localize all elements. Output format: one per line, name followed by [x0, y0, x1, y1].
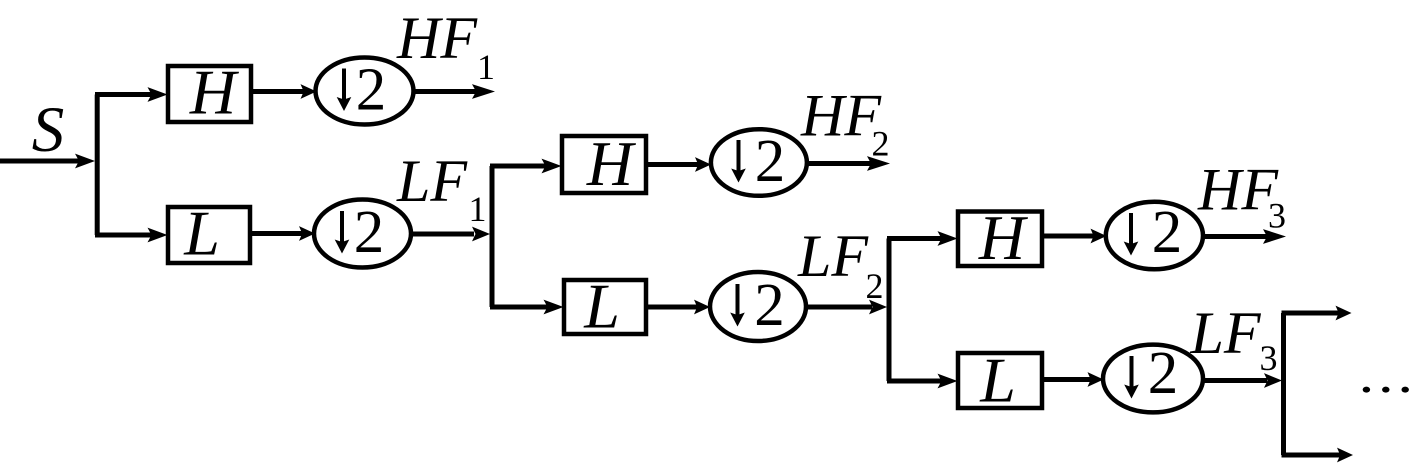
- svg-text:2: 2: [1152, 199, 1183, 266]
- svg-text:3: 3: [1268, 196, 1286, 236]
- wire downsampler 1 to HF1 output: [413, 84, 495, 99]
- wire downsampler 4 to split 3 (LF2): [806, 300, 888, 315]
- downsampler 4 (down-arrow 2 ellipse): [710, 272, 806, 341]
- filter box L2: [564, 271, 646, 342]
- wire H3 to downsampler 5: [1042, 229, 1107, 244]
- node S label: [32, 94, 65, 166]
- wire downsampler 2 to split 2 (LF1): [411, 227, 491, 242]
- wire branch 3 to L3: [887, 374, 958, 389]
- wire split 3 vertical: [887, 239, 892, 382]
- downsampler 2 (down-arrow 2 ellipse): [314, 199, 411, 268]
- wire branch 1 to H1: [95, 87, 168, 102]
- downsampler 5 (down-arrow 2 ellipse): [1106, 199, 1203, 269]
- svg-text:2: 2: [754, 272, 785, 339]
- node HF1 label: [396, 5, 495, 87]
- node HF2 label: [800, 83, 890, 164]
- downsampler 6 (down-arrow 2 ellipse): [1103, 340, 1203, 413]
- svg-text:2: 2: [872, 124, 890, 164]
- downsampler 3 (down-arrow 2 ellipse): [711, 128, 807, 196]
- node LF3 label: [1190, 300, 1278, 378]
- node LF2 label: [797, 223, 884, 306]
- downsampler 1 (down-arrow 2 ellipse): [316, 57, 414, 125]
- svg-text:3: 3: [1260, 338, 1278, 378]
- svg-text:2: 2: [356, 57, 387, 124]
- wire branch 2 to H2: [490, 159, 562, 174]
- wire L2 to downsampler 4: [646, 300, 710, 315]
- node HF3 label: [1197, 157, 1286, 236]
- wire downsampler 3 to HF2 output: [807, 156, 891, 171]
- svg-text:S: S: [32, 94, 65, 166]
- svg-text:2: 2: [354, 199, 385, 266]
- ellipsis continuation dots: [1363, 387, 1409, 393]
- wire split 4 vertical: [1281, 313, 1286, 455]
- wire split 2 vertical: [490, 166, 495, 307]
- wire H2 to downsampler 3: [646, 157, 711, 172]
- wire input S: [0, 154, 95, 169]
- svg-text:2: 2: [755, 128, 786, 195]
- wire split 1 vertical: [95, 95, 100, 236]
- wire branch 2 to L2: [490, 300, 564, 315]
- svg-text:L: L: [183, 198, 220, 269]
- filter box H3: [958, 202, 1042, 273]
- filter box H2: [562, 128, 646, 199]
- svg-text:1: 1: [477, 47, 495, 87]
- svg-text:LF: LF: [797, 223, 869, 289]
- wire downsampler 6 to split 4 (LF3): [1202, 373, 1282, 388]
- wire branch 4 bottom output: [1282, 448, 1354, 463]
- svg-text:L: L: [979, 345, 1016, 416]
- svg-text:LF: LF: [396, 148, 468, 214]
- svg-text:2: 2: [1148, 340, 1179, 407]
- filter box H1: [168, 57, 251, 128]
- wire downsampler 5 to HF3 output: [1203, 229, 1286, 244]
- wire L3 to downsampler 6: [1042, 372, 1104, 387]
- svg-text:H: H: [189, 57, 240, 128]
- wire branch 1 to L1: [95, 228, 168, 243]
- svg-text:HF: HF: [1197, 157, 1279, 223]
- wire branch 4 top output: [1282, 306, 1352, 321]
- svg-text:H: H: [978, 202, 1029, 273]
- wire branch 3 to H3: [887, 231, 958, 246]
- wire L1 to downsampler 2: [250, 226, 315, 241]
- svg-text:1: 1: [469, 189, 487, 229]
- svg-text:LF: LF: [1190, 300, 1262, 366]
- filter box L3: [958, 345, 1042, 416]
- filter box L1: [168, 198, 250, 269]
- svg-text:HF: HF: [800, 83, 882, 149]
- node LF1 label: [396, 148, 487, 229]
- svg-text:HF: HF: [396, 5, 478, 71]
- svg-text:H: H: [586, 128, 637, 199]
- svg-text:2: 2: [866, 266, 884, 306]
- wire H1 to downsampler 1: [251, 84, 317, 99]
- svg-text:L: L: [583, 271, 620, 342]
